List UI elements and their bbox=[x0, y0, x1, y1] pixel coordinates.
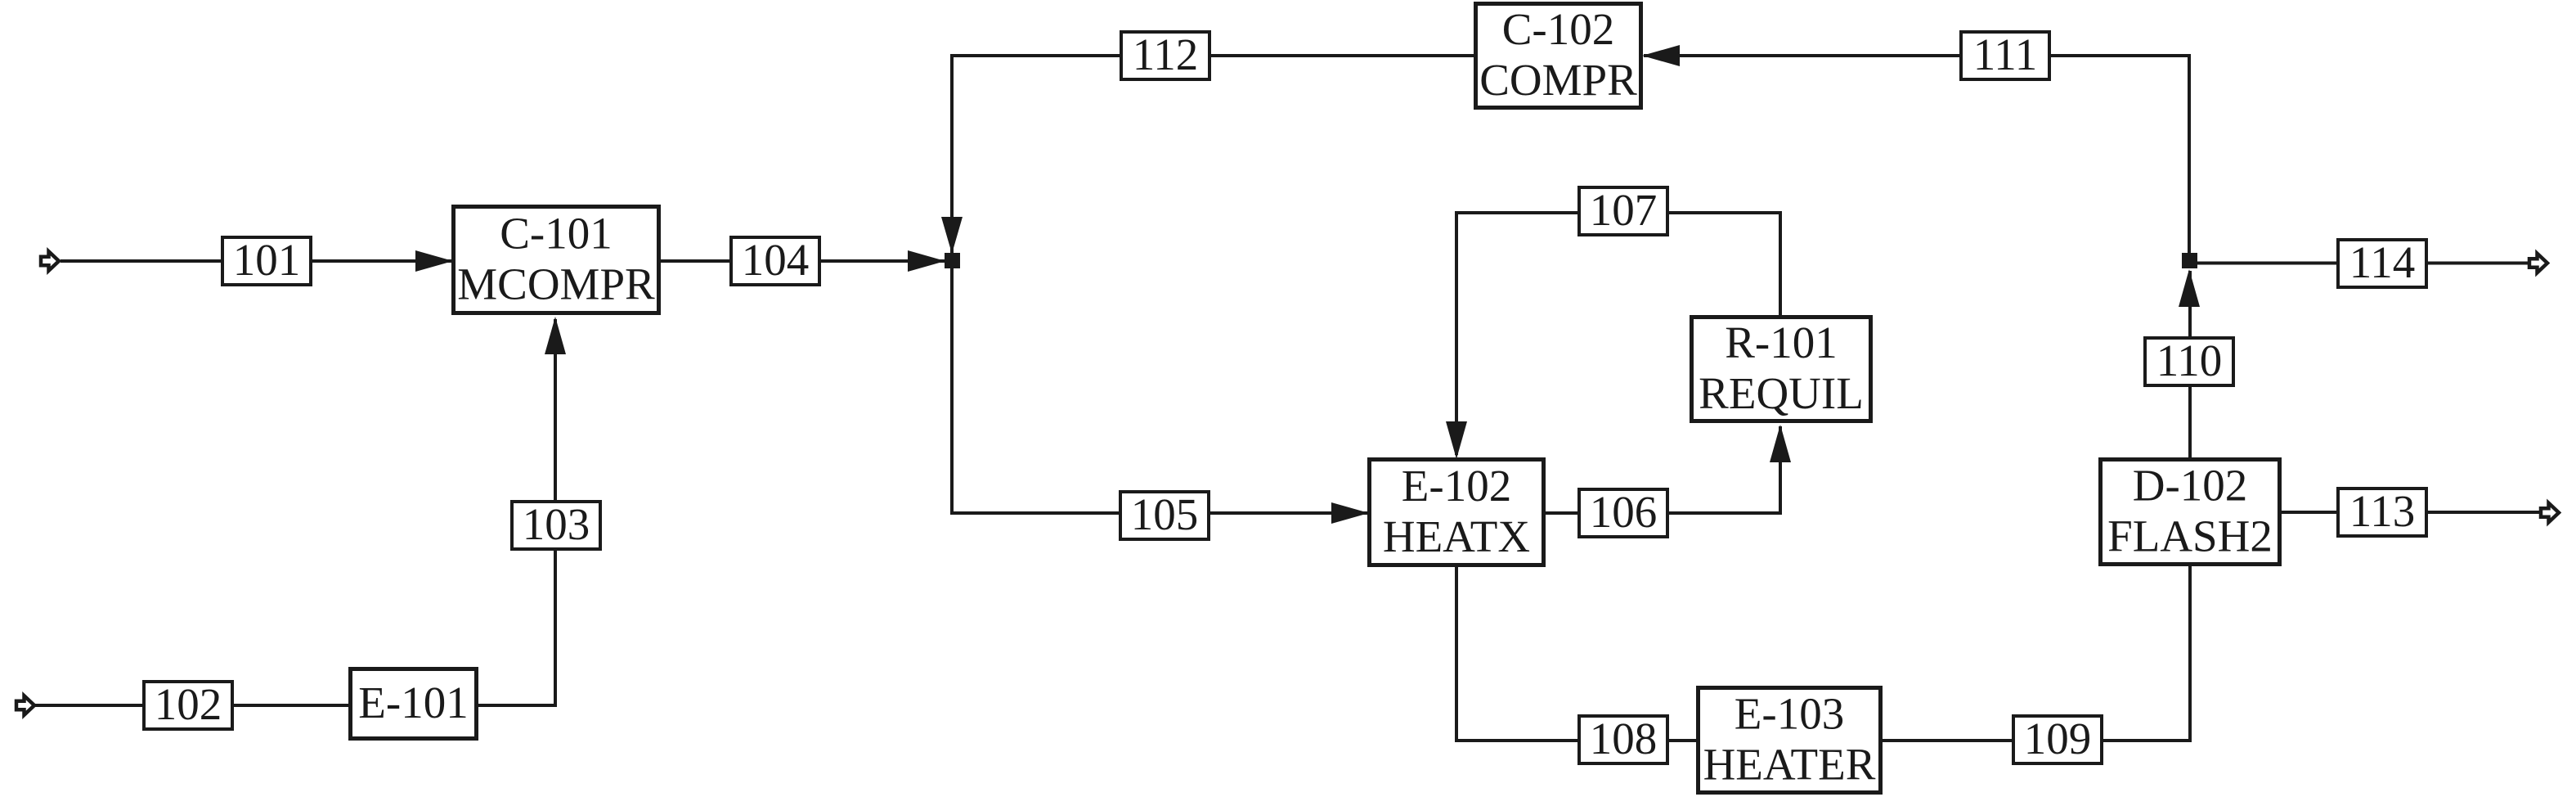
arrowhead into mixer junction (stream 104) bbox=[908, 250, 945, 272]
unit block C-101 MCOMPR bbox=[454, 207, 659, 313]
stream label box 101 bbox=[222, 235, 311, 285]
svg-text:106: 106 bbox=[1590, 487, 1658, 537]
unit block D-102 FLASH2 bbox=[2101, 460, 2280, 565]
stream label box 106 bbox=[1579, 487, 1667, 537]
svg-text:103: 103 bbox=[523, 499, 590, 549]
unit block E-102 HEATX bbox=[1370, 460, 1544, 565]
stream label box 107 bbox=[1579, 185, 1667, 235]
product outlet symbol (stream 113) bbox=[2541, 503, 2559, 523]
wire: D-102 liquid outlet to product (stream 113) bbox=[2282, 511, 2541, 514]
stream label box 109 bbox=[2013, 714, 2102, 763]
stream label box 103 bbox=[512, 499, 600, 549]
svg-text:110: 110 bbox=[2156, 335, 2222, 385]
arrowhead into C-101 bottom (stream 103) bbox=[545, 317, 566, 354]
svg-text:109: 109 bbox=[2024, 714, 2092, 763]
svg-text:C-101: C-101 bbox=[500, 209, 613, 259]
svg-text:114: 114 bbox=[2349, 237, 2415, 287]
unit block E-101 bbox=[351, 669, 477, 739]
wire: feed inlet to C-101 (stream 101) bbox=[61, 259, 452, 263]
stream label box 111 bbox=[1961, 29, 2049, 79]
stream label box 114 bbox=[2338, 237, 2426, 287]
svg-text:104: 104 bbox=[742, 235, 810, 285]
svg-text:HEATX: HEATX bbox=[1383, 511, 1530, 561]
stream label box 105 bbox=[1120, 489, 1209, 539]
feed inlet symbol (stream 102) bbox=[16, 696, 34, 715]
wire: E-102 outlet to R-101 (stream 106) bbox=[1546, 426, 1780, 513]
wire: mixer junction down and right to E-102 (stream 105) bbox=[952, 267, 1369, 513]
svg-text:D-102: D-102 bbox=[2133, 461, 2248, 511]
arrowhead into mixer junction from above (stream 112) bbox=[941, 217, 963, 254]
arrowhead into splitter junction (stream 110) bbox=[2179, 269, 2200, 307]
unit block E-103 HEATER bbox=[1699, 688, 1881, 793]
stream label box 108 bbox=[1579, 714, 1667, 763]
arrowhead into E-102 inlet (stream 105) bbox=[1331, 502, 1369, 524]
svg-text:COMPR: COMPR bbox=[1479, 55, 1637, 105]
wire: E-101 outlet up to C-101 bottom (stream 103) bbox=[478, 319, 555, 705]
svg-text:HEATER: HEATER bbox=[1703, 740, 1876, 790]
wire: C-101 outlet to mixer junction (stream 104) bbox=[661, 259, 945, 263]
stream label box 113 bbox=[2338, 486, 2426, 536]
svg-text:112: 112 bbox=[1133, 29, 1198, 79]
svg-text:102: 102 bbox=[155, 679, 222, 729]
product outlet symbol (stream 114) bbox=[2529, 254, 2547, 273]
wire: E-103 outlet to D-102 bottom (stream 109) bbox=[1883, 566, 2190, 741]
svg-text:MCOMPR: MCOMPR bbox=[457, 259, 655, 309]
svg-text:111: 111 bbox=[1973, 29, 2037, 79]
arrowhead into C-102 inlet (stream 111) bbox=[1642, 45, 1680, 66]
arrowhead into C-101 inlet bbox=[415, 250, 453, 272]
wire: E-102 bottom outlet to E-103 (stream 108) bbox=[1456, 566, 1698, 741]
svg-text:101: 101 bbox=[233, 235, 301, 285]
svg-text:E-101: E-101 bbox=[358, 678, 468, 727]
unit block R-101 REQUIL bbox=[1692, 317, 1871, 421]
svg-text:REQUIL: REQUIL bbox=[1699, 368, 1864, 418]
svg-text:FLASH2: FLASH2 bbox=[2107, 511, 2273, 561]
svg-text:E-102: E-102 bbox=[1402, 461, 1511, 511]
mixer junction node (streams 104+112 -> 105) bbox=[945, 253, 960, 268]
arrowhead into R-101 bottom (stream 106) bbox=[1770, 425, 1791, 462]
svg-text:105: 105 bbox=[1131, 489, 1199, 539]
splitter junction node (stream 110 -> 111+114) bbox=[2182, 253, 2197, 268]
svg-text:113: 113 bbox=[2349, 486, 2415, 536]
svg-text:108: 108 bbox=[1590, 714, 1658, 763]
svg-text:C-102: C-102 bbox=[1502, 4, 1615, 54]
wire: splitter junction to product outlet (stream 114) bbox=[2197, 262, 2531, 265]
wire: D-102 top outlet to splitter junction (stream 110) bbox=[2188, 271, 2192, 458]
wire: splitter junction up to C-102 inlet (stream 111) bbox=[1644, 56, 2189, 254]
unit block C-102 COMPR bbox=[1476, 4, 1641, 108]
svg-text:107: 107 bbox=[1590, 185, 1658, 235]
svg-text:R-101: R-101 bbox=[1725, 317, 1838, 367]
feed inlet symbol (stream 101) bbox=[41, 251, 59, 271]
arrowhead into E-102 top (stream 107) bbox=[1446, 421, 1467, 459]
wire: feed inlet to E-101 (stream 102) bbox=[35, 704, 349, 707]
wire: R-101 outlet to E-102 hot inlet (stream 107) bbox=[1456, 213, 1780, 455]
stream label box 112 bbox=[1121, 29, 1209, 79]
svg-text:E-103: E-103 bbox=[1735, 689, 1844, 739]
stream label box 110 bbox=[2145, 335, 2233, 385]
stream label box 102 bbox=[144, 679, 232, 729]
wire: C-102 outlet to mixer junction (stream 112) bbox=[952, 56, 1474, 254]
stream label box 104 bbox=[731, 235, 819, 285]
